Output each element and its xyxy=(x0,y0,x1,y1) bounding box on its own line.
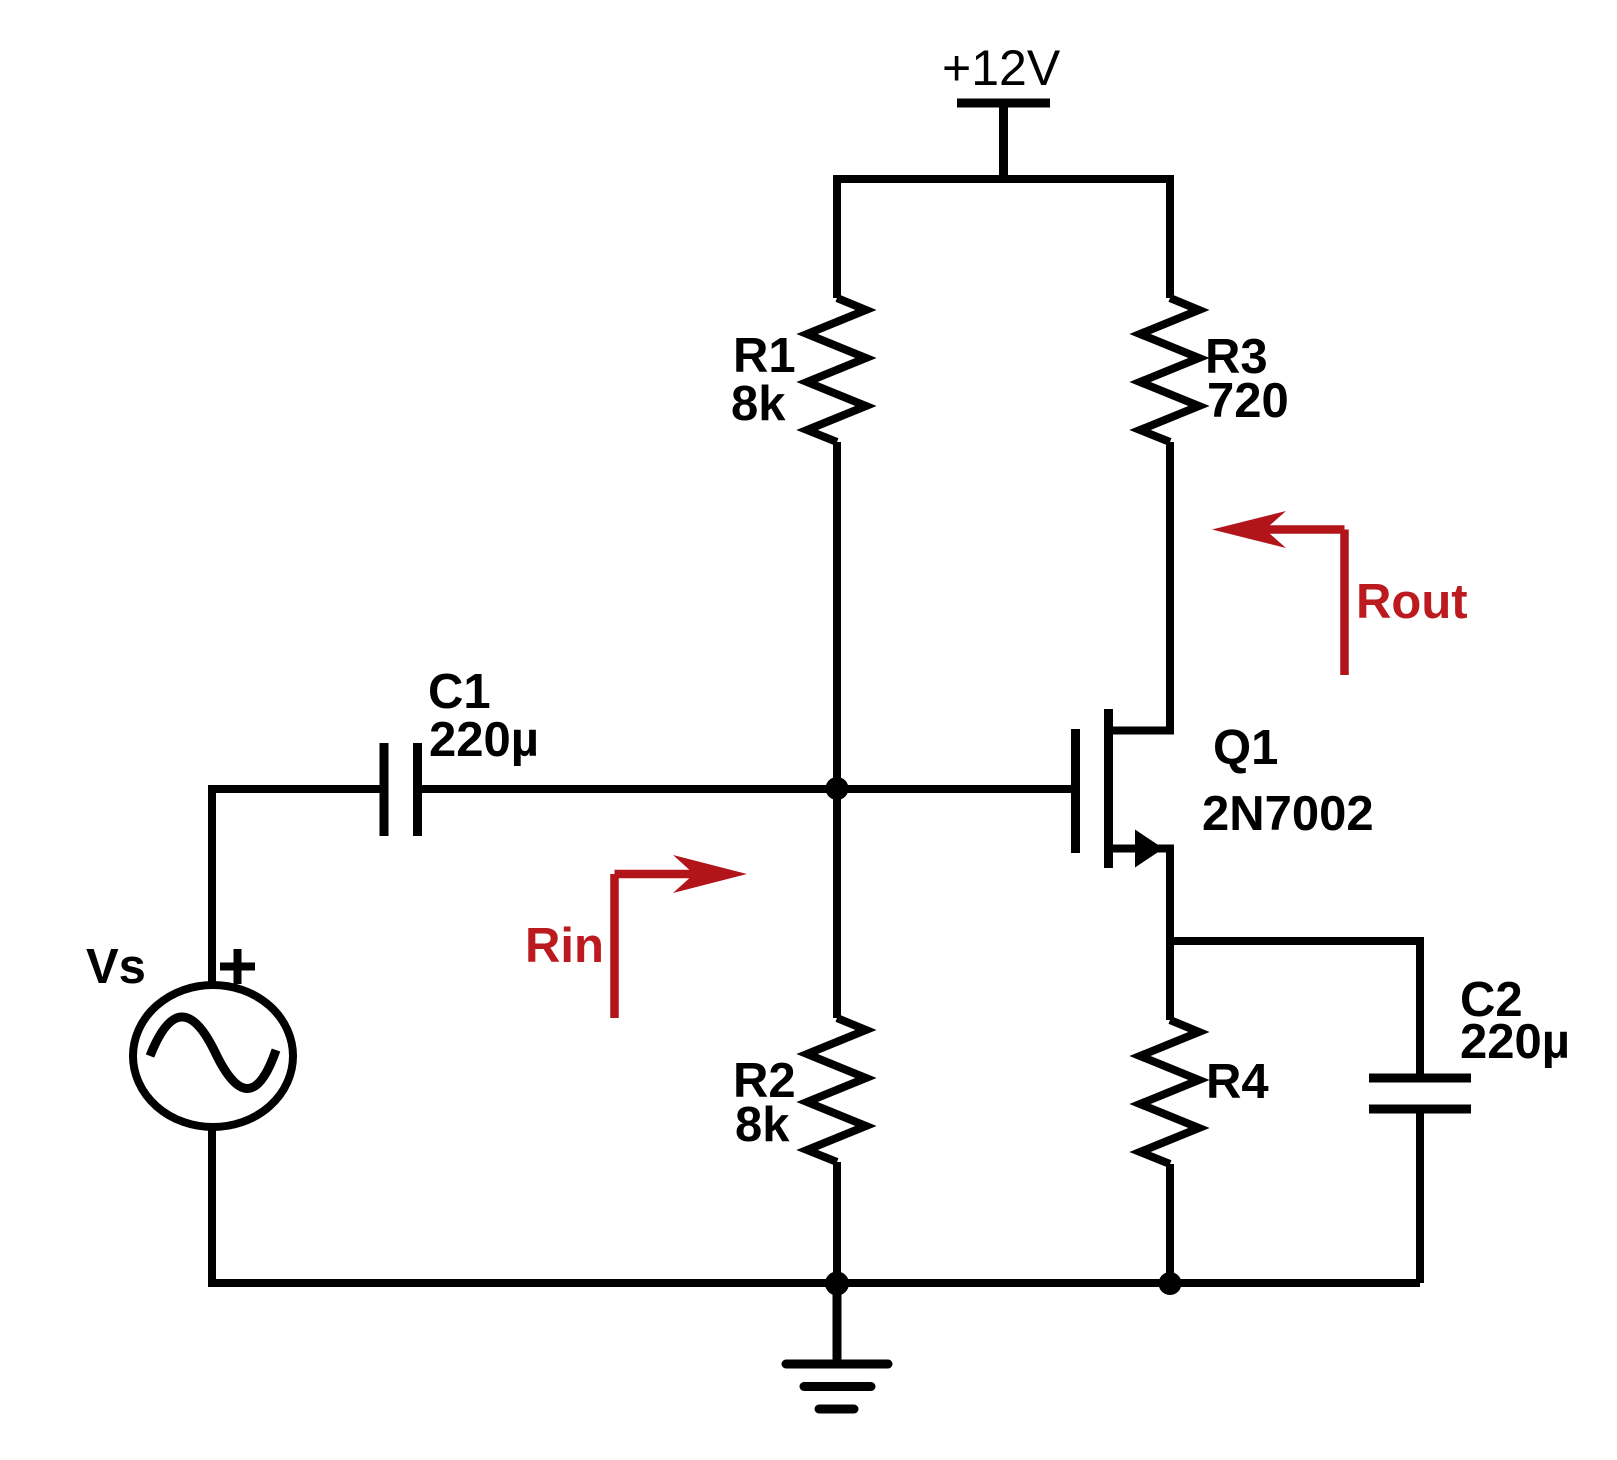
svg-text:+12V: +12V xyxy=(942,40,1061,96)
svg-text:Rin: Rin xyxy=(525,919,604,973)
resistor R4 xyxy=(1140,1020,1199,1164)
svg-text:Rout: Rout xyxy=(1356,575,1468,629)
svg-text:2N7002: 2N7002 xyxy=(1202,787,1374,841)
source Vs sine wave xyxy=(150,1017,276,1089)
wire R2 bottom xyxy=(833,1162,841,1283)
wire drain lead xyxy=(1109,442,1171,731)
wire source Vs bottom lead xyxy=(208,1127,216,1283)
svg-text:720: 720 xyxy=(1207,374,1289,428)
wire source Vs top lead xyxy=(212,789,380,985)
wire bottom rail xyxy=(208,1279,1420,1287)
svg-text:R4: R4 xyxy=(1206,1055,1269,1109)
resistor R3 xyxy=(1140,298,1199,442)
node ground junction dot right xyxy=(1159,1272,1182,1295)
annotation Rout arrow xyxy=(1260,530,1345,676)
resistor R1 xyxy=(807,298,866,442)
svg-text:220µ: 220µ xyxy=(1460,1015,1570,1069)
wire top rail xyxy=(837,179,1170,298)
capacitor C2 xyxy=(1369,1078,1471,1109)
wire C2 branch top xyxy=(1170,941,1420,1074)
node gate junction dot xyxy=(826,777,849,800)
svg-text:Q1: Q1 xyxy=(1213,721,1278,775)
svg-text:8k: 8k xyxy=(731,377,786,431)
transistor Q1 source arrow xyxy=(1135,830,1164,868)
annotation Rin arrow xyxy=(615,874,701,1018)
wire gate lead xyxy=(417,785,1072,793)
ground xyxy=(786,1283,888,1409)
svg-text:Vs: Vs xyxy=(86,940,146,994)
node ground junction dot left xyxy=(825,1272,849,1296)
svg-text:220µ: 220µ xyxy=(429,713,539,767)
node +12V power bar xyxy=(957,103,1050,179)
wire source lead xyxy=(1109,849,1171,1021)
wire R4 bottom xyxy=(1166,1164,1174,1283)
svg-text:R1: R1 xyxy=(733,329,796,383)
source Vs xyxy=(133,985,293,1127)
transistor Q1 channel bar xyxy=(1104,709,1113,868)
svg-text:C1: C1 xyxy=(428,665,491,719)
plus sign polarity xyxy=(220,949,255,984)
wire gate column xyxy=(833,442,841,1018)
wire C2 bottom lead xyxy=(1416,1113,1424,1283)
transistor Q1 gate bar xyxy=(1071,729,1080,853)
resistor R2 xyxy=(807,1018,866,1162)
svg-text:8k: 8k xyxy=(735,1098,790,1152)
capacitor C1 xyxy=(384,743,418,836)
